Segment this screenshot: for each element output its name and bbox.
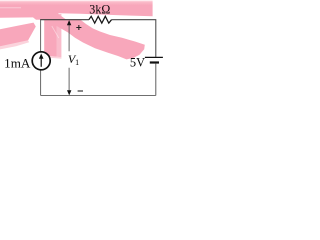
- top band + hub: [0, 0, 153, 20]
- patch/swoosh separation line: [52, 26, 59, 38]
- voltage source V 5V battery plates: [145, 57, 163, 62]
- swoosh band: [43, 14, 145, 59]
- wire right lower: [155, 64, 157, 96]
- current source I 1mA: [32, 52, 50, 70]
- down-left band soft bottom: [0, 40, 29, 49]
- light part of vertical patch: [57, 14, 62, 57]
- vertical patch: [44, 14, 56, 57]
- background: [0, 0, 170, 109]
- wire top right: [112, 20, 156, 57]
- wire left upper: [40, 20, 42, 96]
- voltage arrow V1: [67, 20, 72, 95]
- wire top: [40, 19, 89, 21]
- down-left band: [0, 23, 36, 47]
- plus sign: [76, 25, 81, 30]
- svg-text:1mA: 1mA: [4, 57, 30, 71]
- minus sign: [78, 90, 83, 92]
- svg-text:3kΩ: 3kΩ: [89, 2, 110, 16]
- patch soft bottom: [44, 55, 61, 58]
- faint white line in left strip: [0, 7, 21, 9]
- svg-text:5V: 5V: [130, 55, 145, 69]
- wire bottom: [41, 95, 156, 97]
- resistor R 3k: [89, 16, 112, 23]
